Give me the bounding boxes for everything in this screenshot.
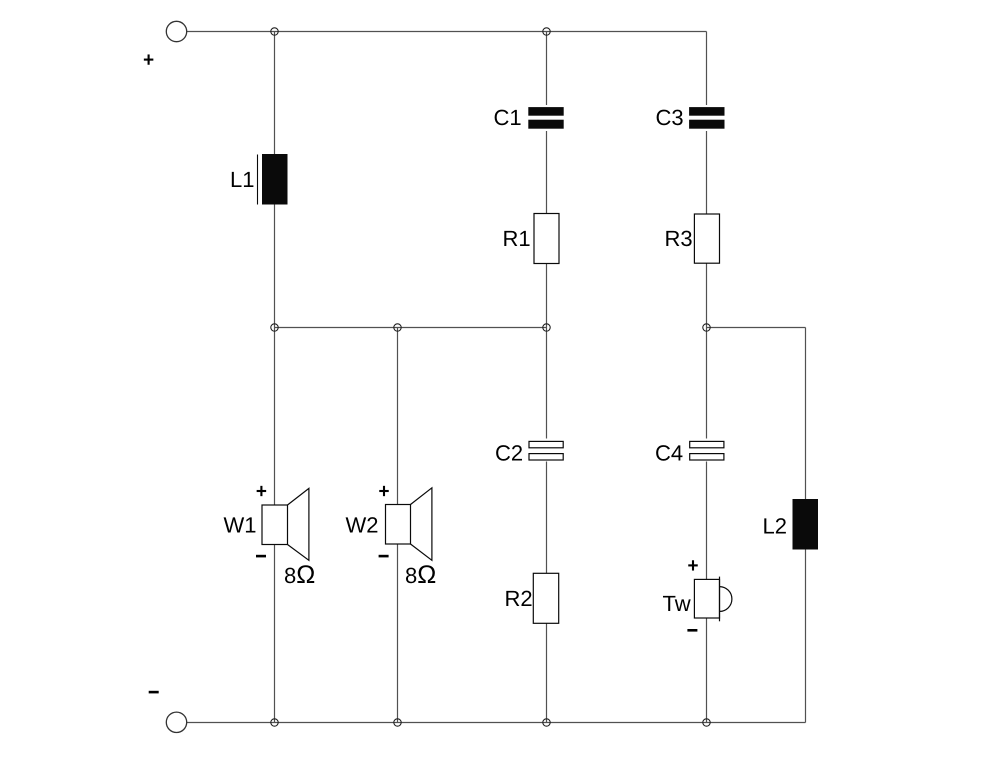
svg-text:L1: L1 — [230, 167, 254, 192]
svg-text:C2: C2 — [495, 441, 523, 466]
svg-text:W2: W2 — [346, 512, 379, 537]
svg-text:R2: R2 — [505, 586, 533, 611]
svg-text:L2: L2 — [763, 513, 787, 538]
svg-text:C3: C3 — [656, 105, 684, 130]
svg-text:Tw: Tw — [663, 591, 691, 616]
svg-text:8Ω: 8Ω — [284, 561, 315, 589]
svg-text:C1: C1 — [494, 105, 522, 130]
svg-text:8Ω: 8Ω — [405, 561, 436, 589]
svg-text:R1: R1 — [503, 226, 531, 251]
svg-text:W1: W1 — [224, 512, 257, 537]
svg-text:R3: R3 — [665, 226, 693, 251]
svg-text:C4: C4 — [655, 441, 683, 466]
